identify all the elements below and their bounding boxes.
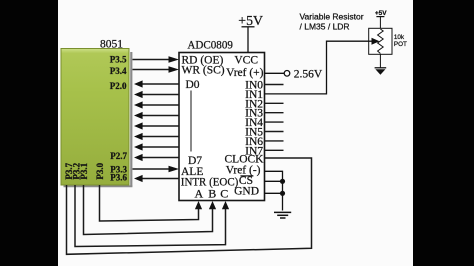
svg-text:POT: POT (394, 41, 407, 48)
svg-text:D0: D0 (186, 79, 200, 91)
svg-text:2.56V: 2.56V (294, 68, 323, 80)
svg-text:P2.7: P2.7 (110, 151, 127, 161)
svg-text:P3.6: P3.6 (110, 173, 127, 183)
svg-text:8051: 8051 (100, 37, 123, 51)
svg-text:P3.4: P3.4 (110, 66, 127, 76)
svg-text:B: B (208, 186, 216, 200)
svg-text:P3.0: P3.0 (95, 162, 105, 179)
svg-text:WR (SC): WR (SC) (182, 65, 225, 77)
svg-text:+5V: +5V (238, 13, 263, 28)
svg-text:+5V: +5V (375, 10, 387, 17)
svg-text:GND: GND (234, 185, 259, 197)
svg-text:A: A (194, 186, 203, 200)
svg-text:VCC: VCC (234, 55, 258, 67)
svg-text:C: C (220, 186, 228, 200)
svg-text:Variable Resistor: Variable Resistor (300, 12, 364, 22)
svg-text:P2.0: P2.0 (110, 81, 127, 91)
svg-text:ADC0809: ADC0809 (187, 37, 233, 51)
svg-text:/ LM35 / LDR: / LM35 / LDR (300, 21, 350, 31)
svg-text:P3.5: P3.5 (110, 54, 127, 64)
svg-text:Vref (+): Vref (+) (226, 67, 264, 79)
svg-text:P3.1: P3.1 (79, 162, 89, 179)
